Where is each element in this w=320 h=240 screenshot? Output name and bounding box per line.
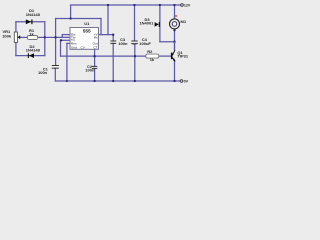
svg-text:TIP31: TIP31 bbox=[177, 54, 188, 59]
svg-text:12V: 12V bbox=[184, 3, 191, 7]
svg-text:1k: 1k bbox=[29, 31, 34, 36]
svg-text:1k: 1k bbox=[150, 57, 155, 62]
svg-text:R2: R2 bbox=[147, 49, 153, 54]
svg-text:Gnd: Gnd bbox=[71, 45, 77, 49]
svg-text:Rs: Rs bbox=[94, 35, 98, 39]
svg-text:M1: M1 bbox=[181, 19, 187, 24]
svg-text:100n: 100n bbox=[118, 41, 128, 46]
svg-text:100n: 100n bbox=[38, 70, 48, 75]
svg-text:100k: 100k bbox=[2, 33, 12, 38]
svg-text:1N4001: 1N4001 bbox=[139, 21, 154, 26]
svg-text:1N4148: 1N4148 bbox=[26, 12, 41, 17]
svg-text:0V: 0V bbox=[184, 79, 189, 83]
svg-text:CT: CT bbox=[93, 45, 97, 49]
svg-text:1N4148: 1N4148 bbox=[26, 47, 41, 52]
svg-text:100n: 100n bbox=[85, 68, 95, 73]
svg-text:555: 555 bbox=[83, 28, 91, 34]
svg-text:U1: U1 bbox=[84, 21, 90, 26]
svg-text:100uF: 100uF bbox=[139, 41, 151, 46]
